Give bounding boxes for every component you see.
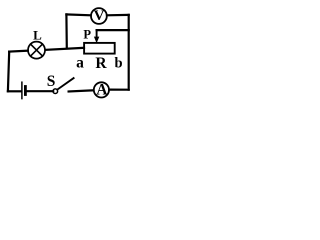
wire lamp to rheostat: [46, 48, 84, 50]
lamp cross: [31, 44, 43, 56]
wire top right to voltmeter: [107, 14, 129, 17]
svg-text:b: b: [115, 56, 123, 72]
lamp L circle: [28, 42, 45, 59]
voltmeter V circle: [91, 8, 107, 24]
switch lever S: [57, 78, 73, 90]
slider arrowhead: [94, 37, 99, 44]
rheostat R rectangle: [84, 43, 115, 54]
svg-text:A: A: [96, 82, 108, 99]
svg-text:L: L: [33, 27, 42, 42]
switch contact circle: [53, 89, 58, 94]
ammeter A circle: [94, 82, 109, 97]
wire slider P to right vertical: [97, 29, 129, 31]
svg-text:P: P: [83, 28, 91, 42]
battery short thick plate: [24, 87, 27, 95]
wire left vertical: [8, 52, 9, 92]
wire voltmeter to top-left corner: [66, 13, 90, 16]
wire voltmeter branch vertical: [65, 14, 68, 48]
svg-text:a: a: [76, 55, 84, 72]
svg-text:S: S: [47, 73, 56, 90]
wire switch to ammeter: [69, 90, 94, 91]
battery long plate: [21, 82, 23, 98]
wire bottom to battery: [8, 90, 21, 92]
wire battery to switch: [27, 90, 53, 92]
wire right vertical: [128, 15, 130, 90]
svg-text:V: V: [94, 8, 105, 24]
wire ammeter to right corner: [109, 88, 128, 90]
wire top-left horizontal to lamp: [9, 50, 28, 53]
svg-text:R: R: [95, 55, 107, 72]
slider arrow shaft: [96, 30, 98, 37]
